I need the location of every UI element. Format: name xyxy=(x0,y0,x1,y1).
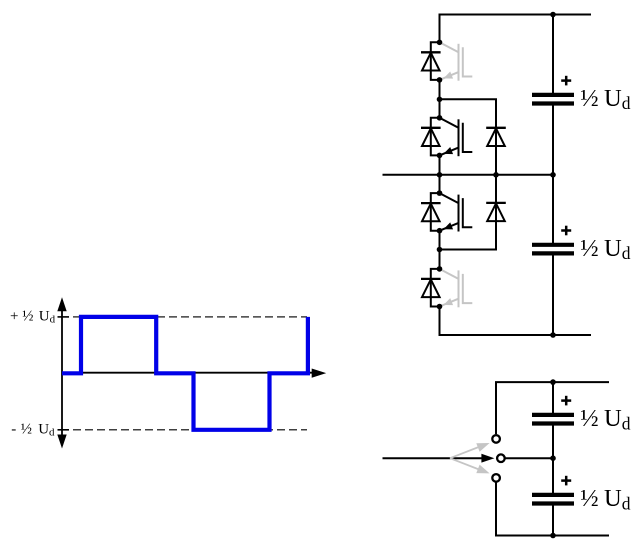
node capacitor midpoint (equivalent) xyxy=(550,455,556,461)
node transistor T1 (inactive) collector xyxy=(437,40,443,46)
node transistor T3 emitter xyxy=(437,228,443,234)
node transistor T1 (inactive) emitter xyxy=(437,77,443,83)
wire top DC rail xyxy=(439,14,592,16)
wire T2 emitter to T3 collector xyxy=(439,155,441,193)
wire rail down to throw terminal P xyxy=(495,382,497,434)
transistor T3 antiparallel diode xyxy=(421,193,441,231)
wire bottom rail (equivalent circuit) xyxy=(495,535,609,537)
wire C2 top lead xyxy=(552,175,554,246)
capacitor C2 xyxy=(532,245,574,254)
waveform voltage axis (vertical) xyxy=(57,297,66,448)
wire pole to capacitor midpoint xyxy=(505,457,553,459)
selector arrow (black, to pole) xyxy=(481,454,494,463)
node N1 (T1/T2, clamp branch) xyxy=(437,97,443,103)
node N2 (T3/T4, clamp branch) xyxy=(437,247,443,253)
transistor T4 (inactive) antiparallel diode xyxy=(421,269,441,307)
svg-text:½Ud: ½Ud xyxy=(580,235,631,263)
capacitor C3 xyxy=(532,415,574,424)
wire bottom DC rail xyxy=(439,334,592,336)
wire T1 emitter to T2 collector xyxy=(439,80,441,118)
wire C1 bottom lead xyxy=(552,103,554,175)
capacitor C4 xyxy=(532,495,574,504)
transistor T1 (inactive) xyxy=(440,42,473,80)
node bottom rail / C4 xyxy=(550,533,556,539)
C2 polarity + xyxy=(561,226,571,236)
node bottom rail / C2 junction xyxy=(550,332,556,338)
C1 polarity + xyxy=(561,76,571,86)
wire input lead xyxy=(383,457,483,459)
tick -1/2 Ud xyxy=(58,429,70,431)
transistor T3 xyxy=(440,193,473,231)
wire output lead (phase output) xyxy=(383,174,440,176)
wire C4 top lead xyxy=(552,458,554,495)
svg-text:+½Ud: +½Ud xyxy=(10,308,56,325)
waveform trace (3-level output voltage) xyxy=(62,317,308,430)
dashed level +1/2 Ud xyxy=(73,316,307,318)
node transistor T4 (inactive) collector xyxy=(437,266,443,272)
clamp diode D5 xyxy=(486,99,506,175)
dashed level -1/2 Ud xyxy=(73,429,307,431)
wire C1 top lead xyxy=(552,15,554,96)
node output midpoint xyxy=(437,172,443,178)
terminal N (- throw) xyxy=(492,474,500,482)
node transistor T3 collector xyxy=(437,190,443,196)
C3 polarity + xyxy=(561,396,571,406)
wire C3 top lead xyxy=(552,382,554,415)
wire C2 bottom lead xyxy=(552,253,554,335)
svg-text:-½Ud: -½Ud xyxy=(11,421,55,438)
node capacitor midpoint xyxy=(550,172,556,178)
wire neutral: midpoint to capacitor midpoint xyxy=(440,174,554,176)
terminal P (+ throw) xyxy=(492,435,500,443)
transistor T2 antiparallel diode xyxy=(421,118,441,156)
C4 polarity + xyxy=(561,476,571,486)
wire N1 branch to clamp diode D5 xyxy=(440,98,498,100)
node transistor T4 (inactive) emitter xyxy=(437,304,443,310)
svg-text:½Ud: ½Ud xyxy=(580,405,631,433)
transistor T1 (inactive) antiparallel diode xyxy=(421,42,441,80)
wire C3 bottom lead xyxy=(552,423,554,458)
wire C4 bottom lead xyxy=(552,503,554,536)
node top rail / C1 junction xyxy=(550,12,556,18)
waveform time axis (horizontal) xyxy=(62,369,326,378)
node top rail / C3 xyxy=(550,379,556,385)
node transistor T2 collector xyxy=(437,115,443,121)
wire N2 branch to clamp diode D6 xyxy=(440,249,498,251)
selector arrow to + throw (grey) xyxy=(450,443,490,458)
svg-text:½Ud: ½Ud xyxy=(580,85,631,113)
transistor T4 (inactive) xyxy=(440,269,473,307)
clamp diode D6 xyxy=(486,175,506,250)
node clamp diodes / neutral xyxy=(493,172,499,178)
selector arrow to - throw (grey) xyxy=(450,458,490,473)
tick +1/2 Ud xyxy=(58,316,70,318)
wire N throw down to bottom rail xyxy=(495,482,497,535)
wire T4 emitter to bottom rail xyxy=(439,307,441,336)
wire leg: top rail to T1 xyxy=(439,15,441,43)
transistor T2 xyxy=(440,118,473,156)
terminal 0 (pole) xyxy=(497,454,505,462)
wire top rail (equivalent circuit) xyxy=(495,381,609,383)
node transistor T2 emitter xyxy=(437,153,443,159)
capacitor C1 xyxy=(532,95,574,104)
wire T3 emitter to T4 collector xyxy=(439,231,441,269)
svg-text:½Ud: ½Ud xyxy=(580,485,631,513)
